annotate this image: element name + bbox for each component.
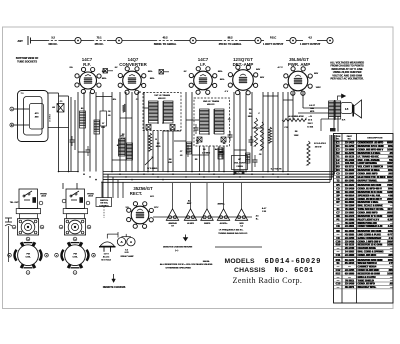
svg-text:DRUM *LAMP: DRUM *LAMP (121, 255, 135, 258)
svg-text:6.3 VOLTS: 6.3 VOLTS (271, 169, 282, 171)
svg-text:34B: 34B (310, 107, 314, 110)
svg-text:I.F. FREQUENCY 455 KC.: I.F. FREQUENCY 455 KC. (219, 229, 244, 232)
svg-text:150 V: 150 V (308, 123, 314, 125)
svg-text:75.1: 75.1 (97, 35, 103, 39)
svg-text:600 KC.: 600 KC. (49, 42, 59, 46)
svg-text:88%: 88% (150, 78, 154, 80)
svg-text:40MFD+: 40MFD+ (218, 203, 226, 206)
svg-text:4.2: 4.2 (308, 35, 312, 39)
svg-text:MEG: MEG (248, 116, 253, 118)
svg-text:2ND I.F. TRANS: 2ND I.F. TRANS (203, 100, 220, 103)
svg-text:33K: 33K (168, 162, 172, 164)
svg-text:0%: 0% (70, 67, 73, 69)
svg-text:13 MA: 13 MA (307, 126, 313, 129)
svg-text:86%: 86% (220, 79, 224, 81)
svg-text:BOTTOM VIEW OF: BOTTOM VIEW OF (16, 56, 39, 60)
svg-text:45.2: 45.2 (163, 35, 169, 39)
svg-text:ALL RESISTORS 1/2 W +-20% VOLT: ALL RESISTORS 1/2 W +-20% VOLTAGES UNLES… (160, 263, 213, 266)
svg-text:+ N: + N (309, 116, 313, 118)
svg-text:455 KC.: 455 KC. (95, 42, 105, 46)
svg-text:5.2: 5.2 (51, 35, 55, 39)
svg-text:20MFD: 20MFD (204, 223, 211, 225)
svg-text:40 MFD: 40 MFD (187, 222, 194, 225)
svg-text:TUBE SOCKETS: TUBE SOCKETS (17, 59, 37, 63)
svg-text:88%: 88% (102, 78, 106, 80)
svg-text:PART: PART (347, 135, 353, 138)
svg-text:455 KC.: 455 KC. (158, 97, 166, 100)
svg-text:PM: PM (27, 254, 30, 256)
svg-text:P.S.C: P.S.C (270, 35, 276, 39)
svg-text:(+-): (+-) (175, 250, 179, 252)
svg-text:40 MFD+: 40 MFD+ (220, 222, 229, 225)
svg-text:455 KC.: 455 KC. (207, 103, 215, 106)
svg-text:B 10.5 470 K: B 10.5 470 K (314, 142, 326, 145)
svg-text:RECT.: RECT. (130, 191, 142, 196)
svg-text:-1 V: -1 V (224, 91, 229, 93)
svg-text:A 4.7: A 4.7 (262, 207, 266, 210)
svg-text:ANT: ANT (18, 39, 24, 43)
svg-text:6D014-6D029: 6D014-6D029 (265, 258, 322, 266)
svg-text:CONTROL: CONTROL (99, 205, 110, 207)
svg-text:A 6.17: A 6.17 (309, 104, 316, 107)
svg-text:88.2: 88.2 (228, 35, 234, 39)
svg-text:A 6.8 MEG 470K: A 6.8 MEG 470K (289, 115, 305, 118)
svg-text:86V: 86V (260, 77, 264, 79)
svg-text:CHASSIS: CHASSIS (234, 267, 266, 274)
svg-text:40MFD45: 40MFD45 (169, 222, 177, 225)
svg-text:JACK: JACK (88, 195, 94, 198)
svg-text:ITEM: ITEM (336, 136, 341, 138)
svg-text:39 K W: 39 K W (315, 147, 322, 149)
svg-text:A2: A2 (188, 200, 190, 203)
svg-text:COIL: COIL (26, 257, 32, 259)
svg-text:PWR. AMP: PWR. AMP (288, 62, 310, 67)
svg-text:117V: 117V (154, 207, 159, 209)
svg-text:COIL: COIL (73, 257, 79, 259)
svg-text:VOL CONT: VOL CONT (234, 163, 245, 165)
svg-text:84V: 84V (256, 68, 260, 71)
svg-text:SWITCH: SWITCH (100, 200, 108, 202)
svg-text:455 KC TO AERIAL: 455 KC TO AERIAL (219, 42, 242, 46)
svg-text:CONVERTER: CONVERTER (119, 62, 147, 67)
svg-text:S.P.: S.P. (342, 120, 346, 122)
svg-text:22K: 22K (101, 127, 105, 129)
svg-text:PM: PM (74, 254, 77, 256)
svg-text:NO.: NO. (348, 139, 352, 141)
svg-text:TEL. OUT: TEL. OUT (10, 202, 19, 204)
svg-text:H.V.: H.V. (150, 196, 154, 198)
svg-text:Zenith Radio Corp.: Zenith Radio Corp. (233, 276, 303, 285)
svg-text:R.F.: R.F. (83, 62, 91, 67)
svg-text:1Y 2.2MEG: 1Y 2.2MEG (147, 168, 158, 170)
svg-text:-8%: -8% (112, 99, 116, 101)
svg-text:TUNING RANGE 540-1615 KC.: TUNING RANGE 540-1615 KC. (218, 232, 248, 235)
svg-text:16 MKS: 16 MKS (50, 114, 52, 122)
svg-text:BROD. TO AERIAL: BROD. TO AERIAL (154, 42, 177, 46)
svg-text:JACK: JACK (41, 195, 47, 198)
svg-text:MA.BA: MA.BA (203, 260, 210, 263)
svg-text:470K: 470K (121, 137, 126, 140)
svg-text:1ST I.F. TRANS: 1ST I.F. TRANS (154, 94, 170, 97)
svg-text:88V: 88V (314, 73, 318, 75)
svg-text:AC-DC: AC-DC (103, 256, 110, 259)
svg-text:60 CYCLE: 60 CYCLE (101, 260, 111, 262)
svg-text:4.7 V: 4.7 V (278, 66, 284, 69)
svg-text:OTHERWISE SPECIFIED: OTHERWISE SPECIFIED (166, 267, 192, 269)
svg-text:ON VOL: ON VOL (100, 203, 108, 205)
svg-text:440V: 440V (187, 202, 192, 205)
svg-text:88%: 88% (148, 71, 152, 73)
svg-text:No. 6C01: No. 6C01 (275, 267, 314, 275)
svg-text:DESCRIPTION: DESCRIPTION (367, 138, 382, 140)
svg-text:NO.: NO. (336, 139, 340, 141)
svg-text:I.F.: I.F. (200, 62, 206, 67)
svg-text:REMOTE CHASSIS: REMOTE CHASSIS (103, 286, 126, 289)
svg-text:DENOTES CHASSIS RETURN: DENOTES CHASSIS RETURN (163, 246, 193, 249)
svg-text:PER VOLT AC VOLTMETER.: PER VOLT AC VOLTMETER. (331, 78, 364, 81)
svg-text:3.3K: 3.3K (262, 211, 267, 213)
svg-text:150K: 150K (294, 135, 299, 137)
svg-text:105V: 105V (316, 87, 322, 89)
svg-text:2 MEG: 2 MEG (236, 166, 243, 168)
svg-text:MEG: MEG (156, 146, 161, 148)
svg-text:MODELS: MODELS (225, 258, 256, 265)
svg-text:117 V: 117 V (104, 254, 110, 256)
svg-text:1 WATT OUTPUT: 1 WATT OUTPUT (300, 42, 321, 46)
svg-text:88%: 88% (218, 71, 222, 73)
svg-text:1 WATT OUTPUT: 1 WATT OUTPUT (263, 42, 284, 46)
